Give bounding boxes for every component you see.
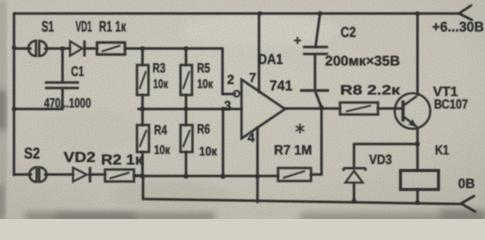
wire R8 to VT1 base	[378, 107, 403, 110]
svg-text:10к: 10к	[153, 77, 169, 91]
wire op-amp pin7 up	[258, 14, 261, 93]
junction C1 return on left rail	[12, 107, 16, 111]
junction node3 vertical on network line	[221, 174, 226, 179]
capacitor C2	[294, 37, 329, 91]
svg-text:C2: C2	[341, 25, 357, 41]
wire top supply rail	[14, 12, 460, 15]
svg-text:10к: 10к	[154, 143, 171, 157]
resistor R8	[340, 103, 378, 115]
junction VD3 on 0V rail	[352, 199, 357, 204]
wire R4 bottom stem	[141, 152, 144, 177]
svg-text:10к: 10к	[199, 145, 218, 159]
wire C1 top stem	[61, 49, 64, 82]
wire into pin2 bubble	[223, 93, 235, 96]
junction R4 bottom on network line	[140, 174, 144, 178]
svg-text:+6...30В: +6...30В	[432, 19, 484, 35]
sensor S1	[28, 41, 46, 56]
wire VD1 to R1	[85, 47, 98, 50]
wire left rail	[13, 14, 16, 176]
junction K1 on 0V rail	[415, 200, 420, 205]
scan shadow left edge	[0, 0, 5, 219]
wire R7 right stub	[311, 173, 322, 176]
wire break arrow 0V terminal	[461, 196, 475, 212]
svg-text:0В: 0В	[458, 176, 475, 191]
wire K1 bottom stem	[416, 190, 419, 203]
junction R5 top	[184, 46, 188, 50]
wire S2 row	[14, 173, 105, 176]
wire bottom network line	[134, 175, 278, 178]
sensor S2	[29, 167, 46, 182]
scan shadow bottom edge	[25, 212, 215, 222]
svg-text:K1: K1	[435, 143, 449, 158]
wire corner down to pin2 level	[221, 49, 224, 95]
svg-text:R3: R3	[153, 61, 166, 76]
relay K1	[401, 171, 439, 190]
wire VT1 collector up	[416, 14, 419, 96]
wire C2 top stem	[316, 14, 321, 48]
junction C2-R7 on output line	[319, 105, 324, 110]
junction C1 tap on S1 row	[60, 46, 64, 50]
transistor VT1	[395, 93, 431, 129]
wire R5 top stem	[185, 49, 188, 66]
svg-text:S1: S1	[42, 19, 55, 36]
svg-text:C1: C1	[71, 63, 84, 79]
op-amp DA1	[234, 80, 285, 139]
junction S1 stub on left rail	[12, 45, 16, 49]
svg-text:200мк×35В: 200мк×35В	[325, 53, 400, 69]
asterisk mark for R7	[296, 124, 304, 134]
junction C2 on top rail	[318, 11, 322, 15]
svg-text:R4: R4	[154, 123, 167, 138]
junction pin7 on top rail	[258, 11, 262, 15]
svg-text:R2 1к: R2 1к	[101, 153, 144, 169]
capacitor C1	[45, 83, 79, 89]
diode VD1	[70, 41, 85, 57]
wire bottom 0V rail	[143, 199, 462, 204]
svg-text:R8 2.2к: R8 2.2к	[340, 83, 400, 98]
junction R3-R4 node on mid line	[140, 107, 144, 111]
wire VD3 top stem	[353, 145, 356, 168]
svg-text:7: 7	[249, 70, 256, 85]
wire node3 to bottom line vertical	[222, 109, 225, 177]
wire rail connector	[142, 177, 145, 200]
junction VT1 collector on top rail	[415, 11, 419, 15]
wire R3 top stem	[141, 49, 144, 66]
wire VT1 emitter down to K1	[416, 128, 419, 171]
resistor R2	[105, 170, 134, 182]
wire R1 to corner node	[125, 47, 223, 50]
svg-text:2: 2	[227, 72, 234, 87]
wire R5 bottom stem	[185, 95, 188, 109]
svg-text:R1 1к: R1 1к	[99, 19, 126, 36]
resistor R3	[137, 65, 149, 95]
resistor R5	[181, 65, 193, 95]
svg-text:VD2: VD2	[64, 150, 96, 166]
svg-text:S2: S2	[24, 146, 40, 163]
wire op-amp pin4 down	[256, 128, 259, 203]
wire R6 top stem	[185, 109, 188, 125]
svg-text:10к: 10к	[197, 77, 214, 91]
wire C1 bottom stem and return	[14, 89, 63, 109]
junction pin4 on network line	[255, 174, 260, 179]
svg-text:R5: R5	[197, 61, 210, 76]
svg-text:4: 4	[248, 130, 256, 145]
svg-text:R7 1М: R7 1М	[274, 143, 312, 158]
svg-text:VD1: VD1	[76, 19, 93, 36]
diode VD2	[73, 167, 90, 183]
svg-text:R6: R6	[197, 122, 210, 137]
junction node3 vertical on mid line	[221, 107, 225, 111]
wire emitter node to VD3 horizontal	[354, 143, 418, 146]
resistor R6	[181, 125, 193, 152]
svg-text:VD3: VD3	[369, 152, 392, 167]
junction R5-R6 node on mid line	[184, 107, 188, 111]
resistor R1	[97, 43, 125, 55]
wire VD3 bottom stem	[353, 184, 356, 202]
wire S1 row left stub	[14, 47, 31, 50]
paper mottling	[110, 181, 230, 209]
wire C2 lower stem	[316, 92, 322, 107]
svg-text:470...1000: 470...1000	[44, 96, 91, 111]
wire R6 bottom stem	[185, 152, 188, 177]
svg-text:DA1: DA1	[258, 52, 283, 68]
wire R2 to network line	[134, 174, 143, 177]
resistor R4	[137, 125, 149, 152]
wire mid line pin3	[139, 108, 242, 111]
junction R6 bottom on network line	[184, 174, 188, 178]
svg-text:741: 741	[270, 79, 293, 95]
wire S1 to VD1 with C1 tap	[45, 47, 70, 50]
wire op-amp output	[285, 107, 340, 110]
resistor R7	[278, 168, 311, 181]
junction emitter-VD3 node	[415, 142, 420, 147]
svg-text:ВС107: ВС107	[434, 97, 468, 112]
wire R4 top stem	[141, 109, 144, 125]
wire break arrow +6...30V terminal	[459, 6, 472, 21]
wire R7 feedback vertical to output	[320, 108, 323, 175]
wire R3 bottom stem	[141, 95, 144, 109]
svg-text:3: 3	[224, 98, 231, 113]
wire C2 mid stem	[314, 55, 317, 89]
junction R3 top	[140, 46, 144, 50]
diode VD3	[344, 168, 366, 183]
